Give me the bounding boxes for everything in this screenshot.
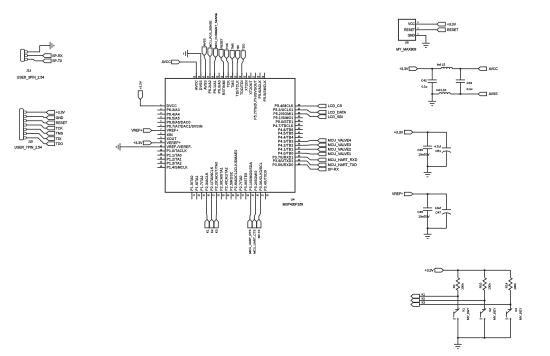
wire pin 34 to MCU_HART_TXD (303, 161, 318, 165)
svg-text:P5.5/SMCLK: P5.5/SMCLK (263, 80, 267, 102)
U4 right pin 40 P4.4/TB4 (295, 136, 303, 138)
net flag LCD_DATA (318, 110, 327, 114)
svg-text:MY_MAX809: MY_MAX809 (396, 48, 416, 52)
wire pin 22 to K3 (215, 199, 217, 219)
U4 left pin 7 VREF+ (157, 130, 165, 132)
connector J15 body (19, 109, 23, 140)
svg-text:MCU_VALVE3: MCU_VALVE3 (328, 143, 351, 147)
net flag VREF+ at C46 (404, 192, 413, 196)
svg-text:MCU_HART_RXD: MCU_HART_RXD (328, 158, 358, 162)
svg-text:P6.2/A2: P6.2/A2 (208, 80, 212, 93)
wire AVSS to pin (204, 56, 205, 79)
U4 left pin 14 P1.2/TA1 (157, 158, 165, 160)
wire U8 VCC to +3.3V (420, 23, 437, 25)
svg-text:+3.3V: +3.3V (399, 67, 409, 71)
connector J13 body (21, 49, 25, 61)
net flag +3.3V (46, 111, 55, 115)
svg-text:TCK: TCK (226, 80, 230, 88)
svg-text:MCU_CURRENT_SENSE: MCU_CURRENT_SENSE (214, 13, 218, 48)
wire MCU_POS_SENSE to pin (209, 57, 211, 79)
U4 right pin 38 P4.2/TB2 (295, 144, 303, 146)
svg-text:AVSS: AVSS (204, 80, 208, 90)
wire J15 pin 1 to +3.3V (26, 111, 46, 113)
svg-text:19: 19 (203, 195, 206, 197)
junction at C46 top (427, 193, 429, 195)
wire +3.3V to node A (418, 68, 433, 70)
ground at DVSS pin 63 (187, 50, 189, 57)
wire J15 pin 4 to TCK (26, 125, 46, 128)
svg-text:100k: 100k (487, 283, 491, 290)
wire pin 48 to LCD_CS (303, 105, 318, 107)
svg-text:AVCC: AVCC (489, 67, 499, 71)
svg-text:LCD_DATA: LCD_DATA (328, 110, 347, 114)
svg-text:AVCC: AVCC (162, 60, 172, 64)
J13 pin 3 (25, 58, 28, 60)
net flag TMS (46, 132, 55, 136)
svg-text:P2.5/ROSC: P2.5/ROSC (229, 171, 233, 190)
svg-text:MCU_VALVE1: MCU_VALVE1 (328, 152, 351, 156)
net flag MCU_POS_SENSE to top pin 61 (208, 48, 212, 57)
U4 right pin 34 P3.6/UTXD1 (295, 160, 303, 162)
net flag +3.3V at U8 (437, 22, 446, 26)
U4 bottom pin 23 P2.3/CA0/TA1 (220, 192, 222, 199)
svg-text:P2.4/CA1/TA2: P2.4/CA1/TA2 (225, 167, 229, 190)
wire J15 pin 7 to TDO (26, 138, 46, 144)
U4 top pin 56 TMS (232, 73, 234, 79)
svg-text:RST/NMI: RST/NMI (222, 80, 226, 95)
svg-text:GND: GND (56, 116, 64, 120)
net flag LCD_CS (318, 104, 327, 108)
wire pin 31 to SP-TX (259, 199, 261, 219)
svg-text:P2.3/CA0/TA1: P2.3/CA0/TA1 (220, 167, 224, 190)
wire U8 RESET to RESET flag (420, 29, 437, 31)
wire L10 to node D (450, 93, 460, 95)
MCU U4 MSP430F169 body (165, 78, 295, 192)
wire J15 pin 6 to TDI (26, 134, 46, 139)
U4 bottom pin 27 P2.7/TA0 (240, 192, 242, 199)
wire TMS to pin (231, 59, 234, 78)
junction at C45 top (427, 131, 429, 133)
svg-text:P6.1/A1: P6.1/A1 (213, 80, 217, 93)
J15 pin 7 (23, 137, 26, 139)
svg-text:28: 28 (247, 195, 250, 197)
U4 right pin 35 P3.7/URXD1 (295, 156, 303, 158)
svg-text:XT2OUT: XT2OUT (249, 80, 253, 94)
svg-text:TDI/TCLK: TDI/TCLK (236, 80, 240, 97)
svg-text:LCD_CS: LCD_CS (328, 104, 343, 108)
U4 right pin 36 P4.0/TB0 (295, 152, 303, 154)
U4 bottom pin 21 P2.1/TAINCLK (211, 192, 213, 199)
U4 bottom pin 26 P2.6/ADC12CLK/DMAE0 (235, 192, 237, 199)
U4 top pin 51 P5.7/TBOUTH/SVSOUT (255, 73, 257, 79)
svg-text:R1: R1 (452, 284, 456, 288)
net flag MCU_UART_CTS below MCU (252, 219, 256, 228)
U4 left pin 15 P1.3/TA2 (157, 162, 165, 164)
U4 right pin 47 P5.3/UCLK1 (295, 109, 303, 111)
svg-text:VCC: VCC (408, 22, 415, 26)
svg-text:MCU_UART_RTS: MCU_UART_RTS (248, 230, 252, 254)
J13 pin 1 (25, 51, 28, 53)
net flag TDO to top pin 54 (241, 51, 245, 60)
net flag TCK (46, 126, 55, 130)
node C junction (431, 93, 433, 95)
svg-text:22: 22 (217, 195, 220, 197)
bottom wire group1 (428, 165, 447, 167)
svg-text:AVSS: AVSS (489, 92, 499, 96)
svg-text:P1.6/TA1: P1.6/TA1 (195, 175, 199, 190)
svg-text:K1: K1 (205, 229, 209, 233)
U4 left pin 9 XOUT (157, 138, 165, 140)
U4 bottom pin 22 P2.2/CAOUT/TA0 (215, 192, 217, 199)
capacitor C42 0.1u (431, 69, 433, 80)
svg-text:23: 23 (222, 195, 225, 197)
wire pin 35 to MCU_HART_RXD (303, 157, 318, 160)
wire U8 GND to ground (420, 35, 426, 43)
net flag TDI (46, 137, 55, 141)
node D junction (459, 93, 461, 95)
capacitor C51 4.7uf polarized (442, 147, 451, 149)
svg-text:P3.2/SOMI0: P3.2/SOMI0 (254, 171, 258, 191)
net flag K2 left (411, 299, 420, 303)
wire pin 36 to MCU_VALVE1 (303, 152, 318, 155)
svg-text:+3.3V: +3.3V (133, 141, 143, 145)
ground at U8 (422, 42, 430, 44)
svg-text:R14: R14 (505, 282, 509, 288)
wire node C to inductor L10 (432, 93, 439, 95)
wire VREF+ to C46 node (413, 193, 428, 195)
wire TDI to pin (236, 59, 239, 78)
svg-text:MSP430F169: MSP430F169 (283, 202, 304, 206)
net flag MCU_VALVE2 (318, 148, 327, 152)
svg-text:VREF+: VREF+ (131, 129, 142, 133)
U4 right pin 45 P5.1/SIMO1 (295, 117, 303, 119)
net flag MCU_HART_RXD (318, 158, 327, 162)
svg-text:K3: K3 (215, 229, 219, 233)
U4 left pin 2 P6.3/A3 (157, 109, 165, 111)
wire K3 to R14 node (419, 304, 510, 306)
power flag +3.3V to VEREF+ pin 10 (143, 141, 152, 145)
U4 left pin 12 P1.0/TACLK (157, 150, 165, 152)
switch K1 MY_KEY (455, 309, 458, 311)
svg-text:C46: C46 (417, 210, 423, 214)
net flag TDO (46, 142, 55, 146)
svg-text:+3.3V: +3.3V (394, 130, 404, 134)
wire pin 20 to K1 (206, 199, 208, 219)
U4 top pin 59 P6.0/A0 (218, 73, 220, 79)
svg-text:TDO: TDO (242, 43, 246, 50)
svg-text:0.1u: 0.1u (467, 87, 473, 91)
ground at VREF- pin 11 (119, 143, 121, 150)
svg-text:P3.4/UTXD0: P3.4/UTXD0 (264, 170, 268, 191)
net flag TMS to top pin 56 (230, 50, 234, 59)
svg-text:LCD_SBI: LCD_SBI (328, 115, 343, 119)
wire K2 to R10 node (419, 299, 484, 301)
ground at J13 (49, 42, 51, 49)
svg-text:24: 24 (227, 195, 230, 197)
svg-text:4.7uf: 4.7uf (434, 144, 441, 148)
svg-text:P1.4/SMCLK: P1.4/SMCLK (167, 166, 189, 170)
U4 right pin 44 P5.0/STE1 (295, 121, 303, 123)
J15 pin 5 (23, 128, 26, 130)
svg-text:C45: C45 (417, 148, 423, 152)
svg-text:P3.0/STE0: P3.0/STE0 (244, 173, 248, 191)
svg-text:TDO/TDI: TDO/TDI (240, 80, 244, 95)
svg-text:P2.0/ACLK: P2.0/ACLK (205, 172, 209, 191)
U4 top pin 54 TDO/TDI (241, 73, 243, 79)
svg-text:SP-TX: SP-TX (257, 230, 261, 239)
wire to C51 branch (428, 132, 447, 148)
J13 pin 2 (25, 55, 28, 57)
U4 right pin 41 P4.5/TB5 (295, 133, 303, 135)
wire J15 pin 3 to RESET (26, 121, 46, 123)
reset IC U8 MY_MAX809 body (398, 19, 415, 40)
junction at group2 bottom (427, 227, 429, 229)
net flag K1 below MCU (205, 219, 209, 228)
ground at keys (454, 343, 462, 345)
U4 right pin 37 P4.1/TB1 (295, 148, 303, 150)
svg-text:TMS: TMS (231, 80, 235, 88)
svg-text:100k: 100k (461, 283, 465, 290)
wire pin 46 to LCD_SBI (303, 114, 318, 117)
U4 left pin 11 VREF-/VEREF- (157, 146, 165, 148)
U4 right pin 39 P4.3/TB3 (295, 140, 303, 142)
J15 pin 6 (23, 133, 26, 135)
svg-text:AVSS: AVSS (203, 38, 207, 46)
U8 pin 2 RESET stub (416, 29, 421, 31)
U4 left pin 6 P6.7/A7/DAC1/SVSIN (157, 125, 165, 127)
svg-text:+3.3V: +3.3V (139, 81, 143, 89)
U4 top pin 64 AVCC (195, 73, 197, 79)
svg-text:21: 21 (212, 195, 215, 197)
net flag LCD_SBI (318, 115, 327, 119)
svg-text:P3.1/SIMO0/SDA: P3.1/SIMO0/SDA (249, 161, 253, 190)
svg-text:TCK: TCK (56, 126, 64, 130)
U4 bottom pin 20 P2.0/ACLK (206, 192, 208, 199)
switch K2 MY_KEY (482, 309, 485, 311)
U4 bottom pin 32 P3.4/UTXD0 (264, 192, 266, 199)
wire J13 pin3 to SP-TX (27, 59, 42, 61)
U4 top pin 53 XT2IN (245, 73, 247, 79)
key pull-up rail (443, 269, 510, 271)
junction at switch2 bottom (484, 337, 486, 339)
key bottom rail (458, 337, 511, 339)
net flag MCU_VALVE1 (318, 152, 327, 156)
U8 pin 1 GND stub (416, 34, 421, 36)
net flag MCU_UART_RTS below MCU (248, 219, 252, 228)
svg-text:RESET: RESET (219, 38, 223, 48)
wire node to switch 2 (484, 300, 486, 308)
U4 right pin 43 P4.7/TBCLK (295, 125, 303, 127)
wire J15 pin 5 to TMS (26, 129, 46, 133)
power flag +3.3V at C45 (404, 130, 413, 134)
wire J13 pin1 to ground (27, 46, 50, 52)
node B junction (459, 68, 461, 70)
svg-text:K2: K2 (210, 229, 214, 233)
U4 left pin 3 P6.4/A4 (157, 113, 165, 115)
svg-text:USER_3PIN_2.54: USER_3PIN_2.54 (17, 75, 44, 79)
wire to ground group1 (427, 166, 429, 172)
svg-text:C47: C47 (435, 211, 441, 215)
U4 bottom pin 30 P3.2/SOMI0 (255, 192, 257, 199)
net flag MCU_VALVE3 (318, 143, 327, 147)
U4 bottom pin 17 P1.5/TA0 (191, 192, 193, 199)
svg-text:+3.3V: +3.3V (425, 268, 435, 272)
svg-text:RESET: RESET (56, 121, 67, 125)
svg-text:U8: U8 (405, 41, 409, 45)
wire L5 to node B (452, 68, 460, 70)
svg-text:U4: U4 (291, 198, 295, 202)
wire node A to inductor L5 (432, 68, 441, 70)
U8 pin 3 VCC stub (416, 23, 421, 25)
capacitor C46 10n/50V (427, 194, 429, 208)
wire switch K2 to bottom rail (484, 319, 486, 338)
svg-text:J13: J13 (26, 68, 31, 72)
svg-text:P2.2/CAOUT/TA0: P2.2/CAOUT/TA0 (215, 162, 219, 191)
svg-text:P2.6/ADC12CLK/DMAE0: P2.6/ADC12CLK/DMAE0 (234, 150, 238, 191)
svg-text:P6.0/A0: P6.0/A0 (217, 80, 221, 93)
wire ground to pin 63 (188, 54, 201, 79)
wire to C47 branch (428, 194, 447, 210)
svg-text:100k: 100k (513, 283, 517, 290)
svg-text:MY_KEY: MY_KEY (518, 308, 522, 320)
svg-text:GND: GND (408, 33, 416, 37)
svg-text:TDO: TDO (56, 142, 64, 146)
U4 top pin 63 DVSS (200, 73, 202, 79)
wire pin 21 to K2 (211, 199, 213, 219)
svg-text:P5.7/TBOUTH/SVSOUT: P5.7/TBOUTH/SVSOUT (254, 80, 258, 119)
ground at filter (428, 100, 436, 102)
net flag GND (46, 116, 55, 120)
net flag K1 left (411, 294, 420, 298)
svg-text:10uf: 10uf (435, 206, 441, 210)
svg-text:C44: C44 (467, 81, 473, 85)
svg-text:Ind L5: Ind L5 (437, 62, 446, 66)
wire pin 47 to LCD_DATA (303, 110, 318, 112)
junction at key node 3 (510, 304, 512, 306)
wire node D to AVSS flag (460, 93, 478, 95)
switch K3 MY_KEY (508, 309, 511, 311)
svg-text:SP-RX: SP-RX (328, 167, 340, 171)
wire node to switch 3 (510, 305, 512, 309)
svg-text:USER_7PIN_2.54: USER_7PIN_2.54 (15, 145, 42, 149)
net flag TDI to top pin 55 (236, 51, 240, 60)
svg-text:J15: J15 (28, 139, 33, 143)
bottom wire group2 (428, 227, 447, 229)
U4 bottom pin 19 P1.7/TA2 (201, 192, 203, 199)
svg-text:26: 26 (237, 195, 240, 197)
node A junction (431, 68, 433, 70)
wire MCU_CURRENT_SENSE to pin (215, 57, 216, 78)
junction rail at R1 (457, 269, 459, 271)
svg-text:MCU_VALVE4: MCU_VALVE4 (328, 139, 351, 143)
U4 right pin 46 P5.2/SOMI1 (295, 113, 303, 115)
inductor L5 (441, 67, 452, 68)
net flag SP-TX below MCU (257, 219, 261, 228)
wire +3.3V flag to pin 10 (152, 142, 158, 144)
U4 left pin 5 P6.6/A6/DAC0 (157, 121, 165, 123)
net flag MCU_VALVE4 (318, 139, 327, 143)
svg-text:MY_KEY: MY_KEY (466, 308, 470, 320)
power flag +3.3V at keys (435, 268, 444, 272)
svg-text:C51: C51 (435, 149, 441, 153)
U4 bottom pin 25 P2.5/ROSC (230, 192, 232, 199)
svg-text:SP-RX: SP-RX (52, 54, 63, 58)
junction rail at R10 (484, 269, 486, 271)
svg-text:TDI: TDI (56, 137, 62, 141)
wire VREF+ flag to pin 7 (152, 130, 158, 132)
svg-text:32: 32 (266, 195, 269, 197)
svg-text:SP-TX: SP-TX (52, 59, 63, 63)
svg-text:MY_KEY: MY_KEY (493, 308, 497, 320)
net flag MCU_CURRENT_SENSE to top pin 60 (214, 49, 218, 58)
capacitor C44 0.1u (459, 69, 461, 80)
net flag K3 left (411, 303, 420, 307)
svg-text:P1.5/TA0: P1.5/TA0 (190, 175, 194, 190)
svg-text:R10: R10 (479, 282, 483, 288)
U4 bottom pin 18 P1.6/TA1 (196, 192, 198, 199)
wire TCK to pin (227, 59, 229, 79)
wire pin 30 to MCU_UART_CTS (254, 199, 255, 219)
junction at group1 bottom (427, 165, 429, 167)
svg-text:P1.7/TA2: P1.7/TA2 (200, 175, 204, 190)
U4 bottom pin 28 P3.0/STE0 (245, 192, 247, 199)
wire switch K1 to bottom rail (457, 319, 459, 338)
wire J15 pin 2 to GND (26, 116, 46, 117)
net flag MCU_HART_TXD (318, 163, 327, 167)
U4 left pin 4 P6.5/A5 (157, 117, 165, 119)
wire K1 to R1 node (419, 295, 458, 297)
U4 top pin 57 TCK (227, 73, 229, 79)
svg-text:P3.5/URXD0: P3.5/URXD0 (272, 163, 293, 167)
wire node C to ground (431, 94, 433, 101)
svg-text:XT2IN: XT2IN (245, 80, 249, 91)
svg-text:TDI: TDI (236, 45, 240, 50)
net flag SP-TX (43, 59, 52, 63)
resistor R14 100k (510, 270, 512, 278)
net flag K2 below MCU (210, 219, 214, 228)
J15 pin 1 (23, 111, 26, 113)
net flag AVSS to top pin 62 (202, 47, 206, 56)
svg-text:27: 27 (242, 195, 245, 197)
svg-text:DVSS: DVSS (199, 80, 203, 90)
svg-text:31: 31 (261, 195, 264, 197)
wire pin 38 to MCU_VALVE3 (303, 144, 318, 146)
net flag RESET (46, 121, 55, 125)
U4 top pin 62 AVSS (204, 73, 206, 79)
U4 top pin 49 P5.5/SMCLK (264, 73, 266, 79)
svg-text:20: 20 (207, 195, 210, 197)
svg-text:AVCC: AVCC (195, 80, 199, 90)
svg-text:25: 25 (232, 195, 235, 197)
net flag SP-RX (43, 54, 52, 58)
resistor R1 100k (457, 270, 459, 278)
capacitor C47 10uf polarized (442, 209, 451, 211)
resistor R10 100k (484, 270, 486, 278)
U4 top pin 58 RST/NMI (223, 73, 225, 79)
svg-text:18: 18 (198, 195, 201, 197)
junction at switch1 bottom (457, 337, 459, 339)
J15 pin 4 (23, 124, 26, 126)
ground at group1 (424, 171, 432, 173)
svg-text:P2.1/TAINCLK: P2.1/TAINCLK (210, 166, 214, 190)
U4 left pin 16 P1.4/SMCLK (157, 166, 165, 168)
U4 top pin 52 XT2OUT (250, 73, 252, 79)
wire node to switch 1 (457, 296, 459, 309)
svg-text:K3: K3 (422, 301, 426, 305)
inductor L10 (439, 93, 450, 94)
svg-text:0.1u: 0.1u (421, 85, 427, 89)
wire +3.3V to C45 node (413, 131, 428, 133)
